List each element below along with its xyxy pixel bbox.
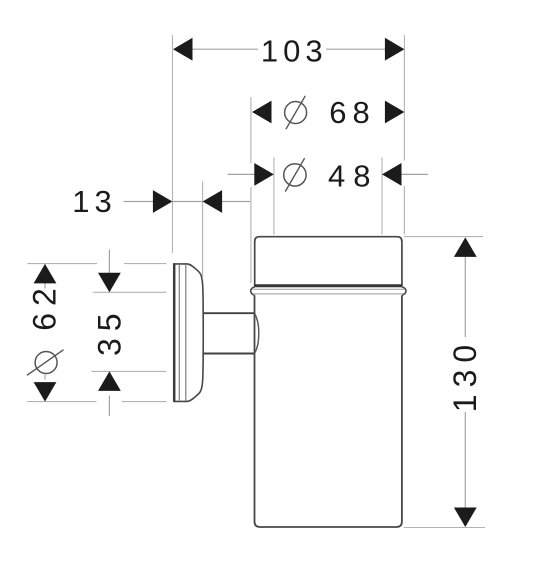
cup rim bottom edge [254,284,402,287]
dim 48: extension line right [381,158,383,235]
dim 103: arrow left [173,38,193,61]
svg-text:35: 35 [91,306,127,356]
svg-text:62: 62 [26,281,62,331]
dim 130: extension line bottom [404,527,485,529]
dim 130: arrow bottom [454,508,477,528]
cup lip right [402,287,406,295]
cup body [255,295,402,527]
dim 62: extension line top a [28,263,98,265]
dim 48: arrow right [382,163,402,186]
dim 68: arrow left [252,101,272,124]
wall plate profile line 1 [178,265,180,400]
dim 62: dim line stub bottom [44,375,46,380]
wall plate outline [173,264,203,402]
stem bottom line [202,353,254,355]
svg-text:103: 103 [261,33,328,68]
dim 35: extension line bottom [91,370,166,372]
dim 13: leader right [221,201,250,203]
dim 35: arrow bottom [98,371,121,391]
dim 35: arrow top [98,273,121,293]
dim 68: extension line left lower [250,187,252,283]
stem fillet arc on cup [255,313,259,353]
stem top line [202,312,254,314]
dim 48: diameter symbol [284,158,306,191]
dim 48: leader right [401,173,428,175]
dim 130: dim line upper [464,256,466,337]
dim 62: arrow bottom [34,382,57,402]
dim 68: diameter symbol [285,96,307,129]
cup rim outline [255,237,402,286]
dim 103: extension line right lower [403,186,405,235]
dim 48: leader left [228,173,256,175]
dim 62: arrow top [34,264,57,284]
dim 130: arrow top [454,237,477,257]
dim 13: arrow left [153,190,173,213]
dim 13: leader left [124,201,155,203]
dim 68: arrow right [385,101,405,124]
dim 103: arrow right [385,38,405,61]
dim 62: extension line bottom b [122,401,167,403]
cup lip shade line upper [252,288,404,290]
cup lip shade line lower [253,293,403,295]
dim 103: extension line right upper [403,35,405,161]
dim 62: extension line bottom a [27,401,96,403]
svg-text:130: 130 [447,338,483,412]
dim 48: arrow left [254,163,273,186]
dim 62: extension line top b [124,263,167,265]
dim 13: middle line [172,201,202,203]
dim 62: diameter symbol [27,350,64,376]
dim 130: extension line top [404,236,483,238]
wall plate back face [173,263,176,402]
dim 48: extension line left [273,158,275,235]
cup lip left [251,287,255,295]
dim 130: dim line lower [464,412,466,508]
svg-text:68: 68 [329,95,375,130]
svg-text:13: 13 [72,184,116,219]
dim 13: extension line right [202,182,204,278]
svg-text:48: 48 [328,158,378,193]
dim 62: dim line stub top [44,283,46,289]
dim 103: leader right [326,48,386,50]
wall plate profile line 2 [185,265,187,401]
dim 35: extension line top [93,291,166,293]
dim 68: extension line left upper [250,97,252,163]
dim 103: leader left [191,48,258,50]
dim 13: arrow right [203,190,223,213]
dim 103: extension line left [172,35,174,253]
dim 35: dim line below [108,396,110,417]
dim 35: dim line above [108,250,110,274]
